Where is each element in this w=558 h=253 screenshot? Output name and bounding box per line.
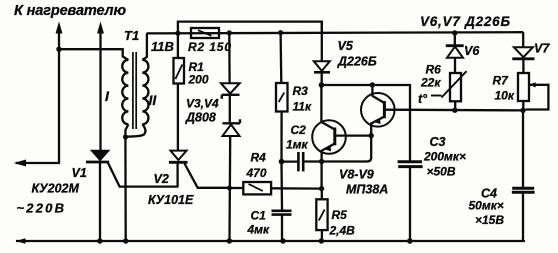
node junction at (59,49)	[56, 47, 61, 52]
node junction emitter/C2/V9wire	[319, 159, 324, 164]
node junction rail/R1/bypass	[175, 31, 180, 36]
capacitor C3 200mk x50V	[398, 162, 423, 241]
node junction rail / R3 top	[278, 30, 283, 35]
svg-text:10к: 10к	[495, 89, 515, 103]
transistor V9 circle	[361, 93, 395, 127]
resistor R2 150 (horizontal, slash inside)	[191, 28, 219, 38]
svg-text:МП38А: МП38А	[346, 183, 388, 197]
svg-text:V1: V1	[72, 166, 87, 180]
svg-text:50мк×: 50мк×	[469, 199, 504, 213]
svg-text:R6: R6	[426, 63, 442, 77]
svg-text:R4: R4	[251, 151, 267, 165]
transformer T1 primary winding I	[122, 60, 128, 137]
node junction V8 base / V9 emitter	[369, 133, 374, 138]
node junction V5/V8-collector/wire85	[319, 82, 325, 88]
diode V6 (apex up)	[446, 33, 464, 73]
wire mains lead left (arrow up, down to bend, left arrow out)	[16, 23, 62, 166]
potentiometer R7 10k	[518, 73, 548, 110]
wire V3V4 chain top	[228, 33, 231, 83]
node transformer common junction	[123, 134, 128, 139]
transistor V8 circle	[312, 120, 346, 154]
transformer T1 secondary winding II	[127, 33, 148, 136]
svg-text:С2: С2	[291, 123, 307, 137]
node junction rail / V3 chain	[227, 30, 232, 35]
svg-text:С1: С1	[251, 209, 267, 223]
svg-text:КУ202М: КУ202М	[32, 182, 80, 196]
svg-text:R7: R7	[493, 74, 510, 88]
svg-text:4мк: 4мк	[247, 223, 271, 237]
transistor V9 emitter with arrow	[371, 117, 384, 136]
wire bottom rail	[16, 238, 524, 244]
node junction R3/C2/C1	[279, 159, 285, 165]
wire horizontal y49 to transformer primary	[59, 49, 128, 60]
transformer T1 core	[133, 52, 136, 129]
wire transformer common down to bottom rail	[124, 137, 127, 241]
svg-text:КУ101Е: КУ101Е	[148, 193, 194, 207]
svg-text:V6,V7 Д226Б: V6,V7 Д226Б	[420, 14, 510, 29]
svg-text:К нагревателю: К нагревателю	[14, 3, 126, 19]
wire V4 down to bottom rail	[228, 136, 231, 241]
svg-text:×15В: ×15В	[475, 213, 504, 227]
thermistor R6 22k	[431, 71, 467, 110]
transistor V9 base lead to R6/R7 wire	[384, 109, 523, 112]
diode V5 D226B (apex down)	[314, 22, 330, 85]
wire y85 from V5 node to C3 corner	[322, 85, 411, 161]
svg-text:~220В: ~220В	[17, 201, 65, 216]
wire top rail y33 from transformer to V7 corner	[147, 32, 524, 33]
wire between V3 and V4	[229, 95, 231, 123]
thyristor V1 KU202M	[86, 151, 178, 241]
transistor V9 base bar	[383, 101, 386, 118]
capacitor C1 4mk (horizontal plates)	[272, 162, 292, 241]
svg-text:470: 470	[246, 166, 267, 180]
diode V4 (zener, apex up)	[222, 119, 240, 136]
svg-text:С3: С3	[430, 135, 446, 149]
wire from V8base/V9emitter node down and left to emitter rail	[322, 136, 372, 162]
svg-text:11к: 11к	[293, 100, 312, 114]
svg-text:Т1: Т1	[124, 28, 139, 43]
svg-text:Д226Б: Д226Б	[337, 55, 377, 69]
svg-text:Д808: Д808	[185, 111, 216, 125]
node junction rail / V6	[452, 30, 457, 35]
node junction R4/R5/emitter	[319, 186, 324, 191]
capacitor C2 1mk (vertical plates)	[282, 152, 322, 171]
svg-text:200мк×: 200мк×	[423, 150, 466, 164]
transistor V8 base lead to V9 emitter node	[335, 134, 371, 136]
transistor V9 collector	[372, 85, 384, 103]
node bottom rail junctions	[97, 238, 413, 244]
resistor R5 2.4V (vertical, slash inside)	[316, 189, 327, 241]
svg-text:R5: R5	[332, 208, 348, 222]
svg-text:R3: R3	[293, 84, 309, 98]
svg-text:2,4В: 2,4В	[329, 224, 356, 238]
transistor V8 emitter with arrow	[322, 144, 335, 189]
svg-text:II: II	[149, 92, 158, 108]
svg-text:V8-V9: V8-V9	[339, 168, 374, 182]
diode V3 (zener, apex down)	[221, 83, 240, 99]
wire mains lead right (arrow up, down to V1 anode)	[98, 23, 104, 151]
svg-text:V7: V7	[534, 42, 550, 56]
svg-text:11В: 11В	[151, 39, 174, 54]
svg-text:V5: V5	[338, 39, 354, 53]
resistor R3 11k (vertical, slash inside)	[276, 33, 288, 162]
svg-text:V6: V6	[464, 44, 480, 58]
wire bypass loop above R2 (node A to V5 anode)	[178, 22, 322, 34]
node junction V3V4 chain / R4 wire	[227, 186, 232, 191]
node junction R7 bottom / C4 line	[520, 108, 525, 113]
node junction R6 bottom	[452, 108, 457, 113]
svg-text:V2: V2	[154, 172, 169, 186]
svg-text:1мк: 1мк	[286, 138, 309, 152]
resistor R4 470 (horizontal, slash inside)	[230, 182, 322, 194]
svg-text:t°: t°	[418, 92, 428, 106]
transistor V8 base bar	[333, 128, 336, 146]
thyristor V2 KU101E	[169, 151, 230, 188]
transistor V8 collector	[321, 85, 334, 130]
svg-text:200: 200	[188, 73, 209, 87]
svg-text:×50В: ×50В	[427, 165, 456, 179]
diode V7 (apex down)	[512, 32, 534, 73]
resistor R1 200 (vertical, slash inside)	[174, 33, 185, 150]
node junction V9 collector on y85 wire	[370, 82, 375, 87]
svg-text:R2 150: R2 150	[188, 40, 231, 54]
svg-text:V3,V4: V3,V4	[186, 97, 219, 111]
capacitor C4 50mk x15V	[512, 110, 535, 241]
svg-text:I: I	[105, 88, 110, 104]
svg-text:22к: 22к	[420, 76, 441, 90]
